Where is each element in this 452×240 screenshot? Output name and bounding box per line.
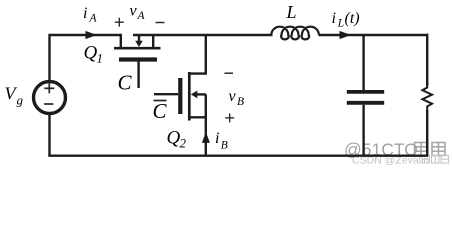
Q2 gate lead: [154, 93, 178, 95]
transistor Q1 (p-MOSFET, horizontal): [114, 35, 273, 88]
Q1 gate lead: [137, 62, 139, 89]
svg-text:g: g: [17, 93, 24, 108]
svg-text:A: A: [89, 13, 98, 25]
svg-text:v: v: [229, 88, 237, 105]
Q1 channel bar: [114, 47, 161, 50]
capacitor top plate: [347, 90, 384, 94]
Q1 source segment of top wire: [133, 34, 273, 36]
svg-text:B: B: [237, 96, 244, 108]
svg-text:B: B: [221, 140, 228, 152]
label + of v_A: [115, 18, 124, 27]
capacitor (output filter): [347, 35, 384, 156]
Q1 body arrow: [138, 35, 140, 42]
transistor Q2 (n-MOSFET, vertical): [154, 35, 206, 156]
wire: left rail + top wire to Q1 drain stub: [50, 35, 121, 82]
label + of v_B: [225, 113, 234, 122]
watermark line 2 CSDN @Zevalin爱灰灰: [352, 155, 449, 167]
current arrow i_A: [86, 31, 98, 39]
wire: right rail bottom: [426, 110, 428, 156]
Q2 gate bar: [178, 78, 182, 114]
svg-text:C: C: [118, 71, 133, 95]
svg-text:2: 2: [180, 136, 187, 151]
wire: inductor to right rail: [319, 34, 429, 36]
resistor (load): [422, 34, 432, 156]
inductor L: [271, 27, 319, 40]
svg-text:i: i: [332, 10, 336, 27]
svg-text:L: L: [337, 18, 344, 30]
Q1 gate bar: [119, 57, 157, 61]
Q2 channel bar: [188, 72, 191, 121]
svg-text:A: A: [137, 10, 146, 22]
wire: bottom rail: [48, 154, 428, 156]
label - of v_A: [156, 22, 165, 24]
Q2 body arrow shaft: [197, 93, 206, 95]
wire: right rail top: [426, 34, 428, 86]
Q2 drain wire from switch node: [190, 35, 206, 74]
label - of v_B: [225, 72, 234, 74]
svg-text:Q: Q: [167, 128, 181, 149]
svg-text:i: i: [215, 130, 219, 147]
Q2 source wire down to bottom rail: [205, 94, 207, 155]
svg-text:1: 1: [97, 51, 104, 66]
wire: bottom-left rail from Vg to bottom wire: [48, 114, 50, 156]
svg-text:v: v: [130, 3, 138, 20]
capacitor bottom plate: [347, 101, 384, 105]
svg-text:Q: Q: [84, 43, 98, 64]
Q1 source stub: [152, 35, 154, 47]
svg-text:L: L: [286, 2, 297, 22]
Q2 source stub: [190, 116, 206, 118]
capacitor bottom lead: [362, 105, 364, 156]
capacitor top lead: [362, 35, 364, 90]
voltage source Vg: [34, 82, 66, 114]
svg-text:(t): (t): [345, 10, 360, 27]
svg-text:C: C: [153, 99, 168, 123]
current arrow i_L: [340, 31, 352, 39]
svg-text:i: i: [83, 5, 87, 22]
resistor zigzag: [422, 86, 432, 110]
current arrow i_B: [202, 132, 210, 143]
watermark line 1 @51CTO博客: [344, 140, 445, 160]
